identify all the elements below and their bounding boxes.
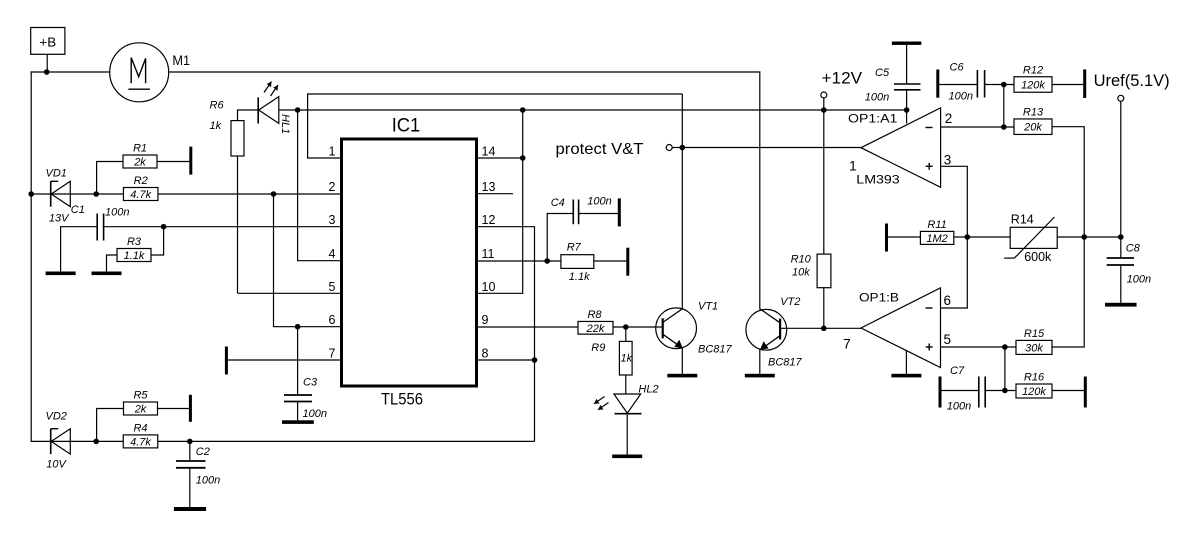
svg-text:TL556: TL556	[381, 390, 423, 409]
wire pin6 row to IC	[274, 326, 342, 328]
node junction opampA output - VT1 collector	[680, 145, 686, 151]
terminal bar R11	[885, 224, 888, 252]
wire left vertical rail	[30, 71, 32, 442]
resistor R4 4.7k	[123, 435, 158, 448]
wire R5 right lead	[157, 408, 189, 410]
svg-text:C4: C4	[551, 197, 565, 209]
node junction R8-R9-VT1 base	[623, 324, 629, 330]
wire Uref riser	[1120, 101, 1122, 237]
ground op-amp B	[891, 374, 921, 378]
svg-text:4.7k: 4.7k	[130, 436, 151, 448]
node junction VD1-R2	[93, 191, 99, 197]
wire C7 lead left	[942, 390, 979, 392]
svg-text:7: 7	[329, 347, 336, 361]
svg-text:5: 5	[944, 332, 952, 347]
svg-text:3: 3	[329, 213, 336, 227]
wire C6 lead right	[985, 84, 1014, 86]
svg-text:1k: 1k	[210, 120, 222, 132]
resistor R6 1k	[231, 121, 244, 156]
capacitor C4 100n	[572, 200, 574, 225]
wire pin12 riser x534.5 to bottom rail	[477, 227, 535, 442]
node junction R14 right	[1081, 234, 1087, 240]
svg-text:R1: R1	[133, 143, 147, 155]
node junction C1-R3	[161, 224, 167, 230]
op-amp U1B LM393	[861, 288, 941, 368]
node junction pin6-C3	[295, 324, 301, 330]
terminal +B box	[31, 28, 65, 55]
wire R1 left riser	[97, 162, 123, 195]
svg-text:7: 7	[843, 336, 851, 352]
node junction R4-C2	[187, 439, 193, 445]
terminal bar pin7	[225, 347, 228, 375]
svg-text:13: 13	[482, 180, 496, 194]
svg-text:LM393: LM393	[856, 173, 900, 187]
ground VT1	[667, 374, 697, 378]
svg-text:BC817: BC817	[768, 357, 803, 369]
ground C8	[1105, 303, 1137, 307]
capacitor C3 100n	[284, 394, 312, 396]
wire R6 top lead to HL1	[238, 110, 259, 156]
wire VT2 emitter to ground	[759, 349, 761, 374]
node junction pin5-R15-R16	[1002, 344, 1008, 350]
wire pin8 stub	[477, 359, 535, 361]
svg-text:5: 5	[329, 280, 336, 294]
svg-text:10k: 10k	[792, 267, 810, 279]
svg-text:1: 1	[329, 145, 336, 159]
capacitor C8 100n	[1107, 257, 1134, 259]
motor M1	[110, 43, 169, 102]
node junction C7-R16	[1002, 388, 1008, 394]
svg-text:1k: 1k	[621, 353, 633, 365]
svg-text:protect V&T: protect V&T	[556, 141, 644, 158]
svg-text:100n: 100n	[1127, 274, 1151, 286]
wire R3 left ground drop	[107, 255, 118, 272]
svg-text:10: 10	[482, 280, 496, 294]
wire C2 top lead	[189, 441, 191, 461]
wire riser HL1 node to IC pin4	[298, 110, 342, 261]
node junction pin11-C4-R7	[544, 258, 550, 264]
wire pin14-pin10 riser x522.7	[477, 110, 523, 293]
op-amp U1A LM393	[861, 108, 941, 187]
svg-text:1: 1	[849, 158, 857, 174]
node junction R11-R14-pin3-pin6	[965, 234, 971, 240]
wire R9 top lead	[625, 327, 627, 341]
svg-text:R14: R14	[1011, 213, 1034, 227]
wire VT2 base row to opampB output	[781, 327, 862, 329]
svg-text:VD2: VD2	[46, 411, 67, 423]
wire R11 left lead	[888, 236, 920, 238]
svg-text:R12: R12	[1023, 64, 1043, 76]
ground C2	[174, 507, 206, 511]
wire riser C6 junction to pin2 row	[1003, 85, 1005, 128]
svg-text:2: 2	[945, 111, 953, 126]
terminal bar R1	[189, 147, 192, 175]
svg-text:13V: 13V	[49, 213, 70, 225]
wire R16 right lead	[1052, 390, 1084, 392]
terminal bar R5	[189, 395, 192, 422]
svg-text:R13: R13	[1023, 106, 1044, 118]
resistor R1 2k	[123, 155, 157, 168]
svg-text:20k: 20k	[1023, 122, 1042, 134]
zener diode VD2 10V	[50, 429, 52, 454]
wire VT1 collector riser	[681, 94, 683, 310]
svg-text:3: 3	[944, 153, 952, 168]
wire C1 row to IC pin3	[104, 226, 342, 228]
wire R9 bottom lead to HL2	[625, 375, 627, 394]
terminal bar R12	[1083, 69, 1086, 98]
resistor R3 1.1k	[117, 249, 151, 262]
wire +B to top rail	[46, 55, 48, 73]
svg-text:C8: C8	[1126, 243, 1141, 255]
resistor R12 120k	[1014, 77, 1052, 93]
wire R8 right lead to VT1 base	[613, 326, 662, 328]
svg-text:100n: 100n	[949, 91, 973, 103]
svg-text:R5: R5	[133, 390, 148, 402]
svg-text:R4: R4	[133, 422, 147, 434]
svg-text:4: 4	[329, 247, 336, 261]
LED HL2	[594, 394, 642, 414]
node junction C6-R12-R13	[1001, 82, 1007, 88]
svg-text:2k: 2k	[133, 157, 146, 169]
svg-text:14: 14	[482, 145, 496, 159]
svg-text:1.1k: 1.1k	[569, 271, 590, 283]
LED HL1	[258, 82, 279, 124]
svg-text:HL2: HL2	[638, 384, 658, 396]
resistor R9 1k	[619, 341, 632, 375]
variable resistor R14 600k	[1010, 227, 1057, 248]
capacitor C1 100n	[96, 214, 98, 241]
node terminal Uref circle	[1118, 95, 1124, 101]
transistor VT2 BC817	[746, 309, 787, 350]
svg-text:2k: 2k	[134, 404, 147, 416]
capacitor C5 100n	[892, 42, 922, 45]
wire C4 left riser	[547, 214, 573, 262]
svg-text:C1: C1	[71, 204, 85, 216]
node junction left rail VD1	[28, 191, 34, 197]
node junction C8-Uref	[1118, 234, 1124, 240]
node junction pin8 riser	[532, 357, 538, 363]
wire opampB power stub to ground	[905, 350, 907, 374]
ground VT2	[745, 374, 775, 378]
capacitor C6 100n	[936, 70, 939, 98]
wire R10 bottom lead	[823, 288, 825, 329]
svg-text:4.7k: 4.7k	[130, 189, 151, 201]
svg-text:600k: 600k	[1024, 250, 1052, 264]
svg-text:6: 6	[944, 293, 952, 308]
resistor R8 22k	[578, 321, 613, 334]
svg-text:VT2: VT2	[780, 296, 800, 308]
wire pin5 row to R15	[941, 346, 1017, 348]
svg-text:OP1:A1: OP1:A1	[848, 112, 898, 126]
svg-text:11: 11	[482, 247, 495, 261]
terminal bar C4	[618, 198, 621, 226]
wire VT2 collector riser	[759, 71, 761, 309]
svg-text:C2: C2	[196, 446, 210, 458]
wire C3 riser from pin6 row	[297, 327, 299, 395]
wire HL2 cathode to ground	[626, 414, 628, 455]
svg-text:M1: M1	[172, 52, 190, 68]
node junction +12V rail	[821, 107, 827, 113]
terminal bar R7	[626, 248, 629, 276]
svg-text:R6: R6	[210, 100, 225, 112]
node terminal protect circle	[666, 145, 672, 151]
wire motor to VT2 collector rail	[169, 71, 761, 73]
node junction HL1	[295, 107, 301, 113]
wire R2 row y194 (VD1 to IC pin2)	[31, 193, 341, 195]
svg-text:30k: 30k	[1025, 342, 1043, 354]
wire R5 left riser	[97, 409, 124, 442]
wire R15 right riser x1084	[1052, 237, 1084, 347]
svg-text:HL1: HL1	[279, 114, 291, 134]
svg-text:R10: R10	[791, 254, 812, 266]
wire bottom rail y441.4 (VD2 R4 to pin12 riser)	[31, 440, 534, 442]
wire VT1 emitter to ground	[681, 348, 683, 374]
svg-text:C7: C7	[950, 365, 965, 377]
svg-text:1M2: 1M2	[926, 233, 947, 245]
svg-text:10V: 10V	[46, 459, 67, 471]
svg-text:6: 6	[329, 313, 336, 327]
svg-text:+12V: +12V	[822, 69, 863, 88]
svg-text:100n: 100n	[303, 408, 327, 420]
wire pin13 stub	[477, 193, 514, 195]
wire pin6 riser x967	[941, 237, 968, 308]
node terminal +12V circle	[821, 92, 827, 98]
svg-text:R11: R11	[927, 219, 946, 231]
node junction pin14 riser	[520, 155, 526, 161]
svg-text:22k: 22k	[586, 323, 605, 335]
resistor R16 120k	[1016, 384, 1052, 398]
ground HL2	[612, 455, 642, 459]
svg-text:100n: 100n	[105, 207, 129, 219]
wire HL1 cathode to +12V rail y110	[279, 109, 907, 111]
svg-text:R3: R3	[127, 236, 142, 248]
ground C1	[46, 272, 76, 276]
svg-text:100n: 100n	[587, 196, 611, 208]
svg-text:VD1: VD1	[46, 168, 67, 180]
svg-text:120k: 120k	[1022, 386, 1046, 398]
svg-text:8: 8	[482, 347, 489, 361]
svg-text:R8: R8	[587, 309, 602, 321]
zener diode VD1 13V	[50, 181, 52, 206]
svg-text:+B: +B	[39, 35, 56, 50]
wire C6 lead left	[939, 84, 977, 86]
terminal bar R16	[1084, 377, 1087, 408]
node junction pin2-R13	[1001, 124, 1007, 130]
resistor R2 4.7k	[123, 188, 158, 201]
wire C5 riser and opampA power stub	[906, 45, 908, 84]
resistor R7 1.1k	[561, 255, 594, 269]
node junction C5-opampA	[904, 107, 910, 113]
wire C8 bottom lead	[1120, 265, 1122, 303]
wire pin14 stub	[477, 157, 523, 159]
wire C7 lead right	[985, 390, 1016, 392]
svg-text:VT1: VT1	[698, 301, 718, 313]
wire +12V riser to R10	[823, 98, 825, 254]
resistor R15 30k	[1016, 340, 1052, 354]
svg-text:R15: R15	[1024, 328, 1045, 340]
wire R7 right lead	[594, 260, 627, 262]
node junction +B	[44, 69, 50, 75]
ground R3	[92, 272, 122, 276]
svg-text:9: 9	[482, 313, 489, 327]
wire opampA output row y147.5	[672, 147, 861, 149]
svg-text:OP1:B: OP1:B	[859, 291, 899, 305]
IC1 TL556 box	[342, 139, 477, 386]
svg-text:Uref(5.1V): Uref(5.1V)	[1094, 72, 1170, 90]
svg-text:C5: C5	[875, 67, 890, 79]
svg-text:R9: R9	[591, 342, 605, 354]
svg-text:C6: C6	[950, 62, 965, 74]
svg-text:R2: R2	[134, 175, 148, 187]
wire C2 bottom lead	[189, 468, 191, 507]
svg-text:R7: R7	[567, 242, 582, 254]
wire pin9 row to R8	[477, 326, 579, 328]
node junction VD2-R4R5	[93, 439, 99, 445]
wire R1 right lead	[157, 161, 189, 163]
svg-text:1.1k: 1.1k	[124, 250, 145, 262]
wire R13 right lead and riser x1084	[1052, 127, 1084, 237]
wire R11-R14 row y237	[954, 236, 1121, 238]
resistor R5 2k	[124, 402, 158, 415]
svg-text:C3: C3	[303, 377, 318, 389]
wire C8 top lead	[1120, 237, 1122, 258]
wire pin7 row to terminal bar	[228, 359, 342, 361]
svg-text:100n: 100n	[947, 401, 971, 413]
wire pin1 riser and top link y94	[308, 94, 683, 158]
wire riser R2 junction to pin6 row	[273, 194, 275, 327]
node junction R10-VT2 base	[821, 326, 827, 332]
wire riser R15-R16	[1004, 347, 1006, 391]
transistor VT1 BC817	[656, 308, 697, 349]
node junction R2-pin6 riser	[271, 191, 277, 197]
svg-text:BC817: BC817	[698, 344, 733, 356]
wire pin11 row to R7	[477, 260, 561, 262]
svg-text:100n: 100n	[196, 475, 220, 487]
wire C4 right lead	[579, 213, 618, 215]
svg-text:R16: R16	[1024, 372, 1045, 384]
svg-text:12: 12	[482, 213, 496, 227]
resistor R13 20k	[1014, 119, 1052, 135]
wire C1 left lead and ground drop	[61, 227, 98, 272]
wire R12 right lead	[1052, 84, 1083, 86]
wire C3 bottom lead	[297, 402, 299, 421]
resistor R11 1M2	[920, 231, 953, 244]
wire R3 right riser	[151, 227, 164, 255]
svg-text:2: 2	[329, 180, 336, 194]
wire R6 bottom lead to IC pin5	[237, 120, 239, 122]
resistor R10 10k	[817, 254, 831, 288]
wire pin2 row to R13	[941, 126, 1014, 128]
capacitor C2 100n	[176, 460, 206, 462]
wire top rail left segment	[31, 71, 110, 73]
svg-text:IC1: IC1	[392, 115, 421, 137]
wire pin3 riser x967	[941, 166, 968, 237]
svg-text:100n: 100n	[865, 92, 889, 104]
capacitor C7 100n	[939, 377, 942, 408]
svg-text:120k: 120k	[1021, 80, 1045, 92]
node junction rail y110 riser	[520, 107, 526, 113]
ground C3	[282, 420, 314, 424]
